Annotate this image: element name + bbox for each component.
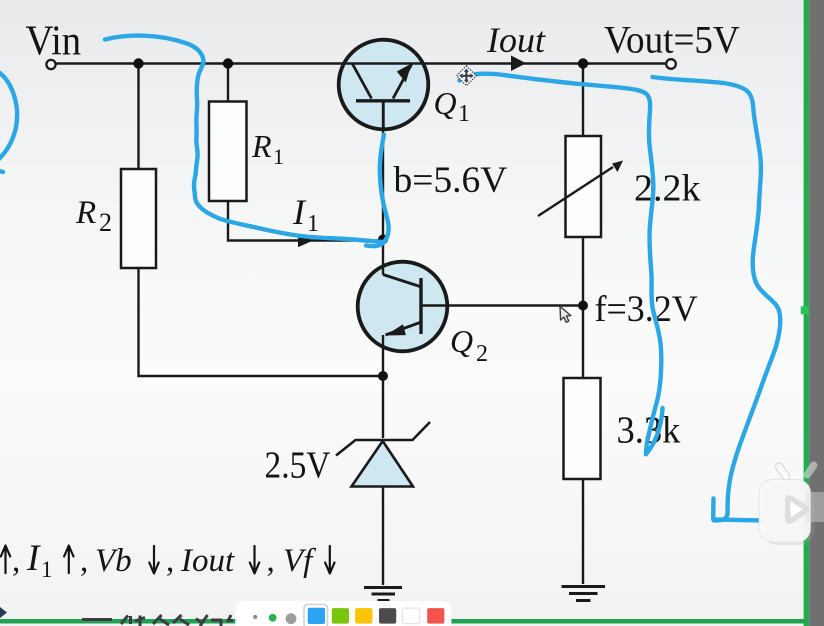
svg-text:,: ,	[12, 543, 20, 579]
svg-text:,: ,	[80, 543, 88, 579]
svg-text:R: R	[75, 195, 96, 231]
svg-text:Vb: Vb	[95, 543, 132, 579]
svg-text:R: R	[251, 128, 272, 164]
svg-text:2: 2	[99, 208, 112, 237]
svg-text:b=5.6V: b=5.6V	[394, 160, 508, 201]
svg-text:Q: Q	[450, 323, 473, 359]
svg-text:f=3.2V: f=3.2V	[595, 287, 699, 329]
svg-text:2: 2	[476, 341, 488, 367]
svg-text:Q: Q	[434, 85, 457, 121]
svg-text:Vf: Vf	[283, 543, 316, 579]
svg-text:I: I	[26, 538, 41, 579]
svg-text:1: 1	[307, 211, 319, 237]
svg-text:1: 1	[273, 144, 284, 169]
svg-text:,: ,	[267, 543, 275, 579]
svg-text:1: 1	[458, 101, 470, 127]
svg-text:Vin: Vin	[26, 17, 82, 64]
svg-text:Iout: Iout	[180, 543, 235, 579]
svg-text:I: I	[292, 192, 307, 232]
svg-text:1: 1	[41, 557, 53, 582]
svg-text:,: ,	[166, 543, 174, 579]
svg-text:Iout: Iout	[486, 20, 546, 60]
svg-text:2.5V: 2.5V	[265, 444, 331, 486]
svg-text:2.2k: 2.2k	[634, 168, 701, 210]
svg-text:Vout=5V: Vout=5V	[604, 19, 740, 62]
